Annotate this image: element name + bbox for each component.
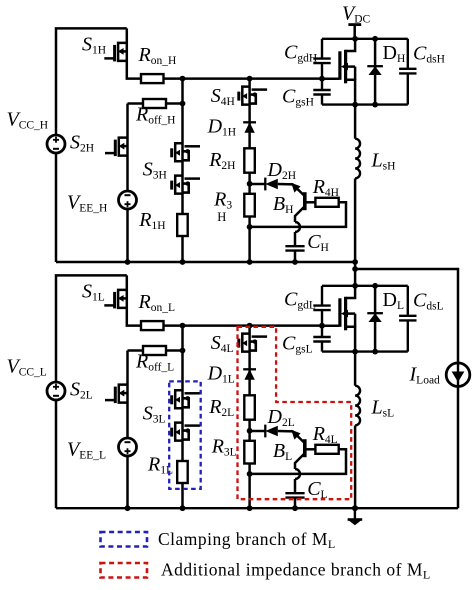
svg-text:Additional impedance branch of: Additional impedance branch of ML [161, 560, 431, 582]
svg-text:Clamping branch of ML: Clamping branch of ML [158, 529, 336, 551]
svg-text:H: H [217, 210, 226, 224]
